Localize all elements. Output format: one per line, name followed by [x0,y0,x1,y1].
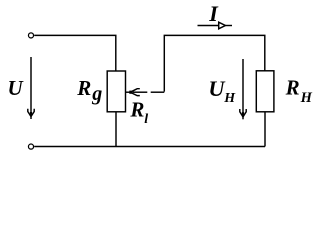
svg-text:R: R [76,76,91,100]
svg-text:H: H [300,90,313,106]
svg-text:l: l [144,112,148,127]
svg-text:U: U [8,76,25,100]
svg-text:g: g [91,83,102,105]
svg-text:H: H [223,91,236,106]
svg-text:R: R [285,75,300,99]
svg-text:I: I [208,1,219,26]
svg-text:R: R [129,97,144,121]
